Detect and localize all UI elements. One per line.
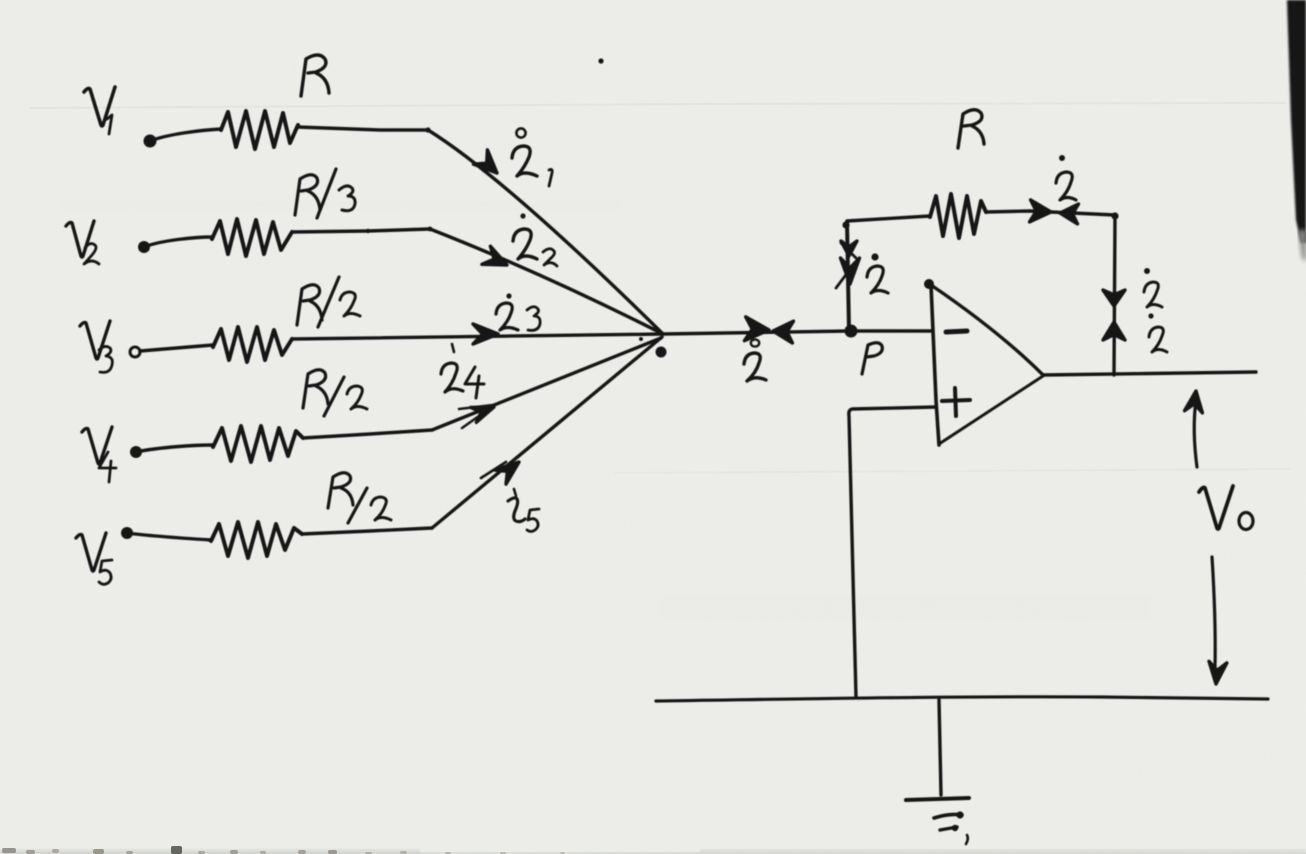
node V1 terminal: [144, 135, 157, 148]
label R/3 (R2 value): [295, 169, 355, 218]
label R/2 (R3 value): [297, 277, 360, 327]
label R/2 (R5 value): [328, 473, 391, 523]
wire: [986, 211, 1115, 215]
stray dot: [598, 58, 603, 63]
wire feedback right vertical: [1114, 216, 1115, 375]
resistor R3 (R/2): [213, 327, 292, 362]
label i4: [441, 344, 484, 398]
resistor Rf (R): [930, 194, 986, 238]
wire ground bus: [656, 697, 1268, 701]
arrow Vo down: [1209, 557, 1227, 684]
wire: [292, 227, 432, 234]
wire i3 horizontal: [292, 334, 663, 339]
resistor R4 (R/2): [213, 426, 303, 462]
wire i4 diagonal: [432, 338, 661, 430]
node V5 terminal: [121, 527, 133, 539]
arrowhead current i (left): [744, 317, 769, 341]
arrowhead current i (right): [773, 321, 794, 343]
label R/2 (R4 value): [303, 370, 367, 416]
wire P to inverting input: [851, 329, 931, 332]
faint ruled line: [615, 469, 1290, 473]
wire ground stem: [939, 700, 941, 795]
scan edge bottom band: [0, 849, 420, 854]
faint smudge band: [660, 596, 1150, 618]
label i (node current): [744, 339, 766, 381]
node V3 terminal: [130, 347, 140, 357]
wire: [303, 430, 432, 438]
label i (right upper): [1144, 268, 1162, 307]
faint ruled line: [30, 103, 1285, 108]
label V5: [76, 533, 112, 584]
arrowhead current i (feedback left): [1030, 200, 1052, 222]
arrowhead current i (down): [1103, 290, 1125, 306]
label i1: [512, 128, 552, 186]
wire: [150, 129, 221, 141]
resistor R1 (R): [221, 111, 298, 149]
wire i2 diagonal: [430, 229, 663, 334]
ground symbol: [906, 798, 969, 844]
wire: [136, 445, 213, 452]
label i2: [513, 213, 557, 266]
label i5: [508, 489, 539, 532]
node feedback corner: [1111, 212, 1118, 219]
label i3: [496, 293, 540, 330]
label R (feedback): [958, 110, 984, 148]
label Vo: [1199, 486, 1253, 530]
wire: [144, 237, 212, 247]
op-amp U1 body: [924, 279, 1043, 445]
wire i5 diagonal: [432, 337, 662, 528]
wire non-inverting input to ground bus: [849, 407, 936, 697]
node V4 terminal: [130, 446, 142, 458]
arrow Vo up: [1185, 391, 1203, 467]
arrowhead i2: [482, 246, 507, 265]
scan edge black wedge: [1287, 0, 1306, 243]
label V4: [82, 427, 116, 482]
node P: [845, 325, 858, 338]
arrowhead current i (up): [1103, 322, 1125, 340]
wire feedback top left: [847, 216, 930, 221]
arrowhead current i (feedback right): [1060, 204, 1079, 224]
label R (R1 value): [301, 55, 329, 96]
wire: [140, 345, 213, 351]
arrowhead current i (down into P): [836, 241, 860, 288]
resistor R2 (R/3): [212, 219, 292, 256]
wire: [297, 127, 431, 133]
arrowhead i5: [481, 462, 519, 484]
label i (feedback current): [867, 253, 888, 293]
arrowhead i4: [459, 405, 494, 428]
node V2 terminal: [138, 241, 150, 253]
wire: [302, 528, 432, 534]
resistor R5 (R/2): [211, 522, 302, 558]
arrowhead i3: [473, 324, 498, 344]
label P: [862, 343, 882, 374]
wire op-amp output: [1043, 372, 1256, 375]
label V2: [66, 221, 99, 264]
op-amp non-inverting input (+): [942, 388, 970, 416]
wire i1 diagonal: [428, 130, 663, 334]
label V3: [80, 321, 112, 372]
arrowhead i1: [474, 150, 498, 173]
label V1: [84, 87, 115, 134]
node summing junction: [639, 337, 667, 358]
label i (top): [1056, 155, 1076, 200]
label i (right lower): [1148, 313, 1167, 352]
op-amp inverting input (-): [946, 331, 967, 332]
wire node to P: [663, 331, 849, 334]
wire P up to feedback: [842, 221, 849, 330]
wire: [127, 533, 211, 540]
